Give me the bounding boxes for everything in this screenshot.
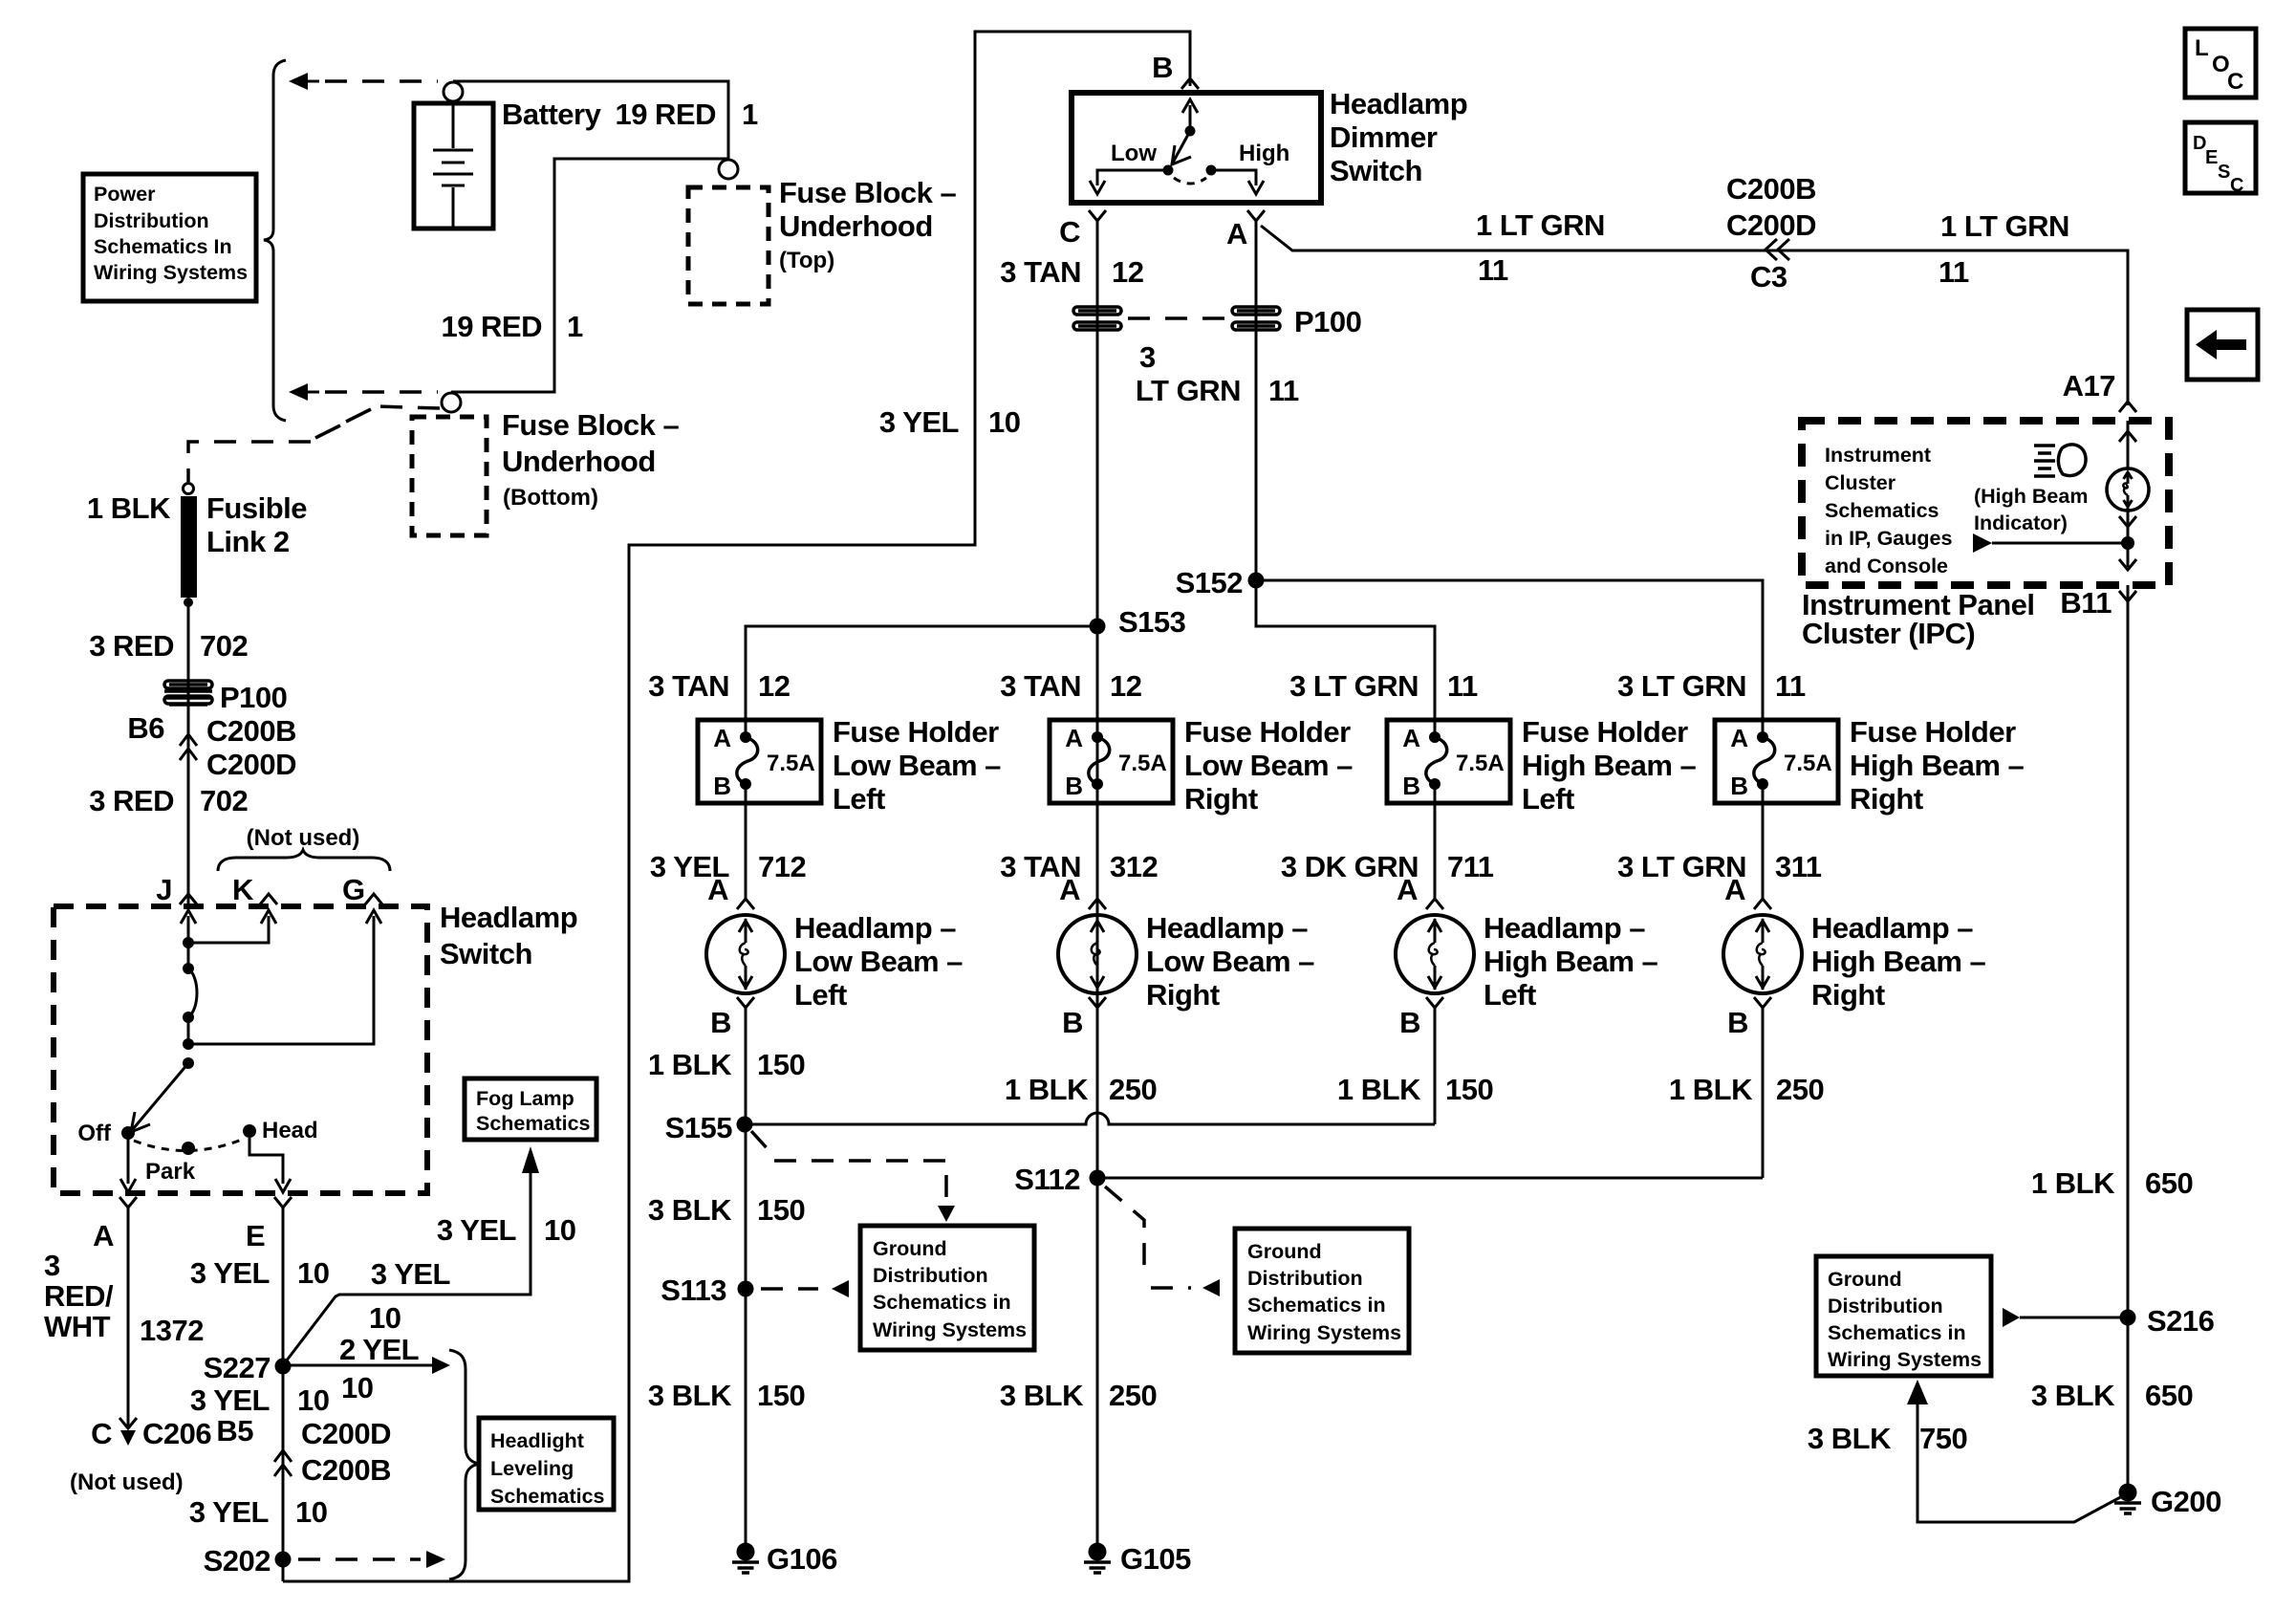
brace headlight leveling schematics: [449, 1350, 479, 1579]
terminal chevron A of headlamp high beam right: [1754, 899, 1771, 909]
svg-text:150: 150: [757, 1048, 805, 1081]
svg-text:750: 750: [1919, 1422, 1967, 1455]
headlamp low beam left lamp: [706, 915, 785, 993]
back arrow box: [2187, 310, 2258, 380]
svg-text:B: B: [710, 1006, 731, 1039]
headlamp high beam right lamp: [1723, 915, 1802, 993]
svg-text:A: A: [713, 724, 731, 752]
switch output Head to E terminal: [249, 1138, 283, 1184]
svg-text:12: 12: [758, 669, 790, 703]
svg-text:P100: P100: [220, 681, 287, 714]
ground G200: [2119, 1484, 2137, 1502]
IPC internal arrow to and Console: [1973, 533, 1992, 553]
svg-text:C: C: [1059, 215, 1080, 249]
wire switch E down (3 YEL 10): [282, 1208, 285, 1449]
wire switch A to C206 (3 RED/WHT 1372): [127, 1208, 130, 1428]
headlamp high beam left lamp: [1396, 915, 1474, 993]
svg-text:C: C: [91, 1417, 112, 1450]
wire S152 to high beam left fuse: [1256, 580, 1435, 720]
svg-text:3 BLK: 3 BLK: [1808, 1422, 1892, 1455]
svg-text:E: E: [2205, 147, 2218, 168]
svg-text:Schematics in: Schematics in: [873, 1291, 1011, 1314]
fusible link 2 body: [181, 496, 197, 598]
svg-text:C206: C206: [142, 1417, 211, 1450]
svg-text:(Bottom): (Bottom): [503, 485, 598, 511]
svg-text:3 RED: 3 RED: [89, 629, 174, 663]
svg-text:and Console: and Console: [1825, 555, 1948, 577]
headlamp switch internal J feed arrow: [187, 916, 190, 943]
fuse holder high beam left element: [1429, 731, 1440, 743]
terminal chevron A of headlamp high beam left: [1426, 899, 1443, 909]
svg-text:(Not used): (Not used): [70, 1469, 184, 1495]
svg-text:in IP, Gauges: in IP, Gauges: [1825, 527, 1952, 550]
svg-text:S113: S113: [661, 1274, 726, 1307]
svg-text:Right: Right: [1850, 782, 1923, 816]
svg-text:1 BLK: 1 BLK: [1669, 1073, 1753, 1106]
in-line connector P100 pair: [1073, 307, 1121, 315]
svg-text:A: A: [1402, 724, 1420, 752]
splice S216: [2120, 1310, 2136, 1326]
svg-text:3 YEL: 3 YEL: [190, 1383, 270, 1417]
svg-text:11: 11: [1447, 669, 1478, 703]
dimmer High output to A: [1211, 170, 1256, 185]
svg-text:1 BLK: 1 BLK: [87, 491, 171, 525]
svg-text:12: 12: [1112, 255, 1143, 289]
svg-text:3 BLK: 3 BLK: [648, 1193, 732, 1227]
svg-text:7.5A: 7.5A: [1456, 751, 1505, 776]
dashed wire to fusible link: [375, 406, 440, 408]
svg-text:3 BLK: 3 BLK: [2031, 1379, 2115, 1412]
svg-text:1: 1: [742, 98, 758, 131]
svg-text:Right: Right: [1811, 978, 1885, 1012]
headlamp dimmer switch box: [1072, 93, 1321, 203]
dimmer Low contact: [1163, 165, 1174, 176]
fog lamp schematics box: [465, 1078, 596, 1140]
svg-text:Schematics: Schematics: [1825, 499, 1939, 522]
in-line connector P100 (left): [164, 685, 212, 705]
svg-text:(Top): (Top): [779, 248, 834, 273]
ground G105: [1089, 1543, 1107, 1561]
svg-text:C200B: C200B: [206, 714, 296, 748]
wire battery B+ to fuse block (19 RED circuit 1): [451, 81, 728, 392]
svg-text:B5: B5: [216, 1414, 253, 1448]
svg-text:711: 711: [1447, 850, 1494, 883]
wire fuse low beam right to headlamp (through box): [1096, 784, 1099, 899]
svg-text:3 YEL: 3 YEL: [879, 405, 959, 439]
brace Power Distribution Schematics: [264, 60, 286, 421]
dashed reference S112 to ground distribution box (right): [1105, 1186, 1144, 1275]
svg-text:Schematics in: Schematics in: [1247, 1294, 1386, 1317]
svg-text:Fuse Block –: Fuse Block –: [502, 408, 679, 442]
headlamp switch internal G branch: [188, 916, 374, 1044]
svg-text:Ground: Ground: [1828, 1268, 1902, 1291]
svg-text:Headlamp: Headlamp: [1330, 87, 1467, 120]
wire dimmer C to G105 (3 TAN 12 / 1 BLK 250 / 3 BLK 250): [1096, 221, 1099, 1544]
svg-text:19 RED: 19 RED: [441, 310, 542, 343]
svg-text:WHT: WHT: [44, 1310, 111, 1343]
svg-text:7.5A: 7.5A: [767, 751, 815, 776]
wire dimmer A to S152 (3 LT GRN 11): [1255, 221, 1258, 580]
terminal chevrons A E below switch: [119, 1197, 137, 1208]
wire fuse high beam right to headlamp (through box): [1762, 720, 1765, 737]
dimmer dashed travel arc: [1174, 178, 1206, 184]
svg-text:B: B: [1730, 772, 1748, 800]
ground distribution schematics box (right): [1816, 1256, 1991, 1376]
fuse holder low beam left element: [740, 731, 751, 743]
svg-text:Left: Left: [1522, 782, 1574, 816]
svg-text:150: 150: [757, 1379, 805, 1412]
svg-text:S202: S202: [204, 1544, 271, 1578]
box note Power Distribution Schematics in Wiring Systems: [83, 174, 256, 301]
svg-text:702: 702: [200, 784, 248, 817]
svg-text:Underhood: Underhood: [502, 445, 656, 478]
svg-text:J: J: [156, 873, 172, 906]
reference arrow box to S216: [2003, 1308, 2020, 1327]
wire high beam right B to S112: [1762, 1008, 1765, 1178]
svg-text:3 TAN: 3 TAN: [648, 669, 729, 703]
connector C200D/C200B chevrons on E wire: [274, 1450, 292, 1476]
svg-text:S112: S112: [1014, 1163, 1080, 1196]
svg-text:250: 250: [1776, 1073, 1824, 1106]
high beam indicator lamp: [2107, 468, 2149, 511]
svg-text:3 LT GRN: 3 LT GRN: [1289, 669, 1419, 703]
headlamp switch dashed box: [54, 906, 427, 1193]
battery: [414, 103, 493, 229]
svg-text:Wiring Systems: Wiring Systems: [873, 1318, 1027, 1341]
terminal chevron B: [1181, 78, 1199, 89]
svg-text:1 LT GRN: 1 LT GRN: [1940, 209, 2069, 243]
svg-text:Right: Right: [1146, 978, 1220, 1012]
svg-text:Ground: Ground: [873, 1237, 947, 1260]
svg-text:Underhood: Underhood: [779, 209, 933, 243]
DESC reference box: [2185, 122, 2256, 193]
svg-text:Cluster (IPC): Cluster (IPC): [1802, 617, 1975, 650]
svg-text:C3: C3: [1750, 260, 1787, 294]
splice S155 and wire to high beam left (hop over low right wire): [745, 1113, 1435, 1124]
svg-text:Fusible: Fusible: [206, 491, 307, 525]
svg-text:LT GRN: LT GRN: [1136, 374, 1241, 407]
svg-text:3 DK GRN: 3 DK GRN: [1281, 850, 1419, 883]
svg-text:11: 11: [1268, 374, 1299, 407]
svg-text:10: 10: [297, 1383, 329, 1417]
svg-text:3 YEL: 3 YEL: [190, 1256, 270, 1290]
svg-text:Leveling: Leveling: [490, 1457, 574, 1480]
fuse holder high beam right element: [1757, 731, 1768, 743]
dashed reference S113 to ground distribution box: [761, 1287, 818, 1291]
svg-text:A: A: [1226, 217, 1247, 250]
contact Head: [243, 1124, 256, 1138]
svg-text:L: L: [2195, 35, 2209, 61]
svg-text:Low Beam –: Low Beam –: [1184, 749, 1353, 782]
svg-text:Low Beam –: Low Beam –: [833, 749, 1001, 782]
terminal chevron B of headlamp high beam left: [1426, 997, 1443, 1008]
headlamp switch wiper blade to Off: [133, 1063, 188, 1129]
wire indicator to IPC internal junction: [2119, 516, 2136, 527]
svg-text:C: C: [2230, 175, 2243, 196]
svg-text:Schematics in: Schematics in: [1828, 1321, 1966, 1344]
terminal chevron B of headlamp low beam right: [1089, 997, 1106, 1008]
dimmer wiper blade: [1173, 131, 1190, 163]
svg-text:11: 11: [1478, 253, 1508, 287]
svg-text:C200D: C200D: [1726, 208, 1816, 242]
svg-text:B6: B6: [127, 711, 164, 745]
svg-text:Headlamp –: Headlamp –: [1484, 911, 1645, 945]
svg-text:12: 12: [1110, 669, 1141, 703]
svg-text:10: 10: [297, 1256, 329, 1290]
svg-text:150: 150: [1445, 1073, 1493, 1106]
svg-text:Low Beam –: Low Beam –: [794, 945, 963, 978]
svg-text:3 TAN: 3 TAN: [1000, 255, 1081, 289]
svg-text:Schematics In: Schematics In: [94, 235, 232, 258]
svg-text:Fog Lamp: Fog Lamp: [476, 1087, 574, 1110]
svg-text:G106: G106: [767, 1542, 837, 1576]
wire low beam right B to G105: [1096, 1008, 1099, 1544]
fusible link 2 terminal ring: [184, 484, 194, 494]
svg-text:S: S: [2218, 162, 2230, 183]
svg-text:Schematics: Schematics: [490, 1485, 605, 1508]
svg-text:Left: Left: [833, 782, 885, 816]
svg-text:Left: Left: [1484, 978, 1536, 1012]
svg-text:650: 650: [2145, 1379, 2193, 1412]
svg-text:Fuse Holder: Fuse Holder: [1850, 715, 2016, 749]
svg-text:Head: Head: [262, 1118, 318, 1143]
svg-text:RED/: RED/: [44, 1279, 114, 1313]
fuse holder low beam left box: [698, 720, 821, 803]
svg-text:11: 11: [1939, 255, 1969, 289]
svg-text:Instrument: Instrument: [1825, 444, 1931, 467]
headlamp switch internal contact ladder: [183, 963, 194, 974]
wire fuse low beam left to headlamp (through box): [745, 720, 747, 737]
wire low beam left B to G106: [745, 1008, 747, 1544]
svg-text:7.5A: 7.5A: [1118, 751, 1167, 776]
svg-text:Indicator): Indicator): [1974, 512, 2068, 534]
svg-text:311: 311: [1775, 850, 1822, 883]
dimmer High contact: [1206, 165, 1217, 176]
svg-text:19 RED: 19 RED: [615, 98, 716, 131]
wire S152 to high beam right fuse: [1256, 580, 1763, 720]
svg-text:Off: Off: [77, 1121, 112, 1146]
svg-text:Headlamp: Headlamp: [440, 901, 577, 934]
terminal chevrons C A below dimmer: [1089, 210, 1106, 221]
svg-text:1 BLK: 1 BLK: [2031, 1166, 2115, 1200]
svg-text:312: 312: [1110, 850, 1158, 883]
svg-text:3: 3: [44, 1249, 60, 1282]
svg-text:Headlamp –: Headlamp –: [1811, 911, 1973, 945]
svg-text:Fuse Holder: Fuse Holder: [1522, 715, 1688, 749]
terminal chevron A of headlamp low beam left: [737, 899, 754, 909]
high beam indicator icon: [2034, 446, 2055, 476]
svg-text:High: High: [1239, 141, 1289, 166]
fuse block underhood (top) terminal ring: [719, 160, 738, 179]
svg-text:Headlight: Headlight: [490, 1429, 584, 1452]
svg-text:10: 10: [341, 1371, 373, 1404]
svg-text:10: 10: [988, 405, 1020, 439]
dashed reference arrow to Power Distribution (top): [289, 73, 308, 90]
terminal B11: [2127, 585, 2130, 631]
svg-text:S227: S227: [204, 1351, 271, 1384]
fuse holder low beam right element: [1092, 731, 1103, 743]
svg-text:S155: S155: [665, 1111, 733, 1144]
dimmer internal B feed: [1189, 105, 1192, 131]
splice S202 with dashed reference arrow: [282, 1449, 285, 1581]
wire B11 to G200 (1 BLK 650 / 3 BLK 650): [2127, 585, 2130, 1491]
battery top terminal ring: [444, 82, 463, 101]
svg-text:B: B: [1062, 1006, 1083, 1039]
wire fuse high beam left to headlamp (through box): [1434, 720, 1437, 737]
svg-text:2 YEL: 2 YEL: [339, 1333, 419, 1366]
fuse holder high beam left box: [1387, 720, 1510, 803]
svg-text:7.5A: 7.5A: [1784, 751, 1832, 776]
svg-text:C200B: C200B: [301, 1453, 391, 1487]
wire fusible link to headlamp switch J (3 RED 702): [187, 604, 190, 906]
svg-text:Right: Right: [1184, 782, 1258, 816]
instrument panel cluster dashed box: [1802, 421, 2169, 585]
svg-text:Low Beam –: Low Beam –: [1146, 945, 1314, 978]
svg-text:250: 250: [1109, 1073, 1157, 1106]
branch ground distribution box to G200 (3 BLK 750): [1907, 1380, 1928, 1404]
svg-text:Low: Low: [1111, 141, 1157, 166]
svg-text:G105: G105: [1120, 1542, 1191, 1576]
branch S227 to headlight leveling (2 YEL 10): [283, 1364, 432, 1367]
svg-text:Park: Park: [145, 1159, 196, 1185]
splice S227: [275, 1359, 292, 1375]
ground G106: [737, 1543, 755, 1561]
svg-text:Dimmer: Dimmer: [1330, 120, 1438, 154]
svg-text:250: 250: [1109, 1379, 1157, 1412]
svg-text:B: B: [1402, 772, 1420, 800]
svg-text:3 YEL: 3 YEL: [371, 1257, 450, 1291]
switch output Off to A terminal: [127, 1133, 130, 1184]
svg-text:1: 1: [567, 310, 583, 343]
svg-text:C200D: C200D: [301, 1417, 391, 1450]
svg-text:S216: S216: [2147, 1304, 2215, 1338]
svg-text:10: 10: [544, 1213, 575, 1247]
svg-text:Schematics: Schematics: [476, 1112, 591, 1135]
svg-text:B: B: [1152, 51, 1173, 84]
svg-text:B11: B11: [2060, 586, 2112, 620]
svg-text:Switch: Switch: [440, 937, 532, 970]
dashed reference S155 to ground distribution box: [751, 1131, 770, 1152]
svg-text:B: B: [1399, 1006, 1420, 1039]
contact Park and dashed travel arc: [134, 1139, 244, 1151]
svg-text:650: 650: [2145, 1166, 2193, 1200]
svg-text:G: G: [342, 873, 365, 906]
svg-text:B: B: [713, 772, 731, 800]
svg-text:1 BLK: 1 BLK: [648, 1048, 732, 1081]
svg-text:P100: P100: [1294, 305, 1361, 338]
svg-text:Headlamp –: Headlamp –: [1146, 911, 1308, 945]
svg-text:B: B: [1727, 1006, 1748, 1039]
terminal chevron B of headlamp low beam left: [737, 997, 754, 1008]
svg-text:(High Beam: (High Beam: [1974, 485, 2088, 508]
svg-text:Ground: Ground: [1247, 1240, 1322, 1263]
svg-text:G200: G200: [2151, 1485, 2221, 1518]
svg-text:3 BLK: 3 BLK: [1000, 1379, 1084, 1412]
svg-text:Fuse Holder: Fuse Holder: [1184, 715, 1351, 749]
svg-text:A: A: [1730, 724, 1748, 752]
svg-text:S153: S153: [1118, 605, 1186, 639]
svg-text:1 BLK: 1 BLK: [1005, 1073, 1089, 1106]
splice S152: [1248, 573, 1265, 589]
svg-text:Wiring Systems: Wiring Systems: [1828, 1348, 1982, 1371]
svg-text:1 LT GRN: 1 LT GRN: [1476, 208, 1605, 242]
svg-text:3 TAN: 3 TAN: [1000, 669, 1081, 703]
ground distribution schematics box (left): [860, 1226, 1034, 1350]
dashed reference arrow to Power Distribution (bottom): [289, 383, 308, 401]
svg-text:B: B: [1065, 772, 1083, 800]
svg-text:3 BLK: 3 BLK: [648, 1379, 732, 1412]
fuse holder high beam right box: [1715, 720, 1838, 803]
svg-text:1372: 1372: [140, 1314, 204, 1347]
svg-text:C200D: C200D: [206, 748, 296, 781]
svg-text:Wiring Systems: Wiring Systems: [1247, 1321, 1401, 1344]
svg-text:Power: Power: [94, 183, 156, 206]
fuse block - underhood (bottom) dashed box: [412, 417, 487, 535]
splice S112 and wire to high beam right: [1097, 1177, 1763, 1180]
svg-text:3 YEL: 3 YEL: [189, 1495, 269, 1529]
LOC reference box: [2185, 29, 2256, 98]
svg-text:A17: A17: [2063, 369, 2115, 403]
svg-text:E: E: [246, 1219, 265, 1252]
svg-text:Fuse Block –: Fuse Block –: [779, 176, 956, 209]
svg-text:Distribution: Distribution: [873, 1264, 988, 1287]
svg-text:High Beam –: High Beam –: [1850, 749, 2025, 782]
headlamp low beam right lamp: [1058, 915, 1137, 993]
splice S113: [738, 1281, 754, 1297]
svg-text:1 BLK: 1 BLK: [1337, 1073, 1421, 1106]
svg-text:3 LT GRN: 3 LT GRN: [1617, 850, 1746, 883]
connector C200B/C200D pass-through chevrons: [180, 734, 197, 760]
svg-text:High Beam –: High Beam –: [1811, 945, 1986, 978]
svg-text:150: 150: [757, 1193, 805, 1227]
svg-text:702: 702: [200, 629, 248, 663]
svg-text:Distribution: Distribution: [1828, 1295, 1943, 1317]
fuse block - underhood (top) dashed box: [688, 187, 769, 304]
svg-text:3 RED: 3 RED: [89, 784, 174, 817]
svg-text:Cluster: Cluster: [1825, 471, 1896, 494]
ground distribution schematics box (middle): [1235, 1229, 1409, 1353]
svg-text:3 YEL: 3 YEL: [437, 1213, 516, 1247]
svg-text:Distribution: Distribution: [1247, 1267, 1363, 1290]
brace over K and G terminals: [218, 850, 390, 871]
fuse block underhood (bottom) terminal ring: [442, 393, 461, 412]
terminal chevron B of headlamp high beam right: [1754, 997, 1771, 1008]
fuse holder low beam right box: [1050, 720, 1173, 803]
svg-text:K: K: [232, 873, 254, 906]
contact Off: [121, 1126, 135, 1140]
svg-text:Wiring Systems: Wiring Systems: [94, 261, 248, 284]
wire dimmer A to IPC A17 (1 LT GRN 11): [1261, 226, 2128, 405]
svg-text:10: 10: [295, 1495, 327, 1529]
terminal chevron A of headlamp low beam right: [1089, 899, 1106, 909]
svg-text:Fuse Holder: Fuse Holder: [833, 715, 999, 749]
svg-text:High Beam –: High Beam –: [1522, 749, 1697, 782]
svg-text:11: 11: [1775, 669, 1806, 703]
svg-text:712: 712: [758, 850, 806, 883]
headlamp switch internal K branch: [188, 916, 269, 943]
svg-text:3: 3: [1139, 340, 1156, 374]
branch S227 to fog lamp schematics (3 YEL 10): [283, 1168, 531, 1365]
svg-text:Distribution: Distribution: [94, 209, 209, 232]
svg-text:Left: Left: [794, 978, 847, 1012]
wire return E circuit to dimmer B: [283, 32, 1190, 1581]
svg-text:Link 2: Link 2: [206, 525, 290, 558]
wire A17 into high beam indicator: [2127, 421, 2130, 468]
svg-text:A: A: [93, 1219, 114, 1252]
svg-text:3 LT GRN: 3 LT GRN: [1617, 669, 1746, 703]
svg-text:Headlamp –: Headlamp –: [794, 911, 956, 945]
splice S153: [1090, 619, 1106, 635]
